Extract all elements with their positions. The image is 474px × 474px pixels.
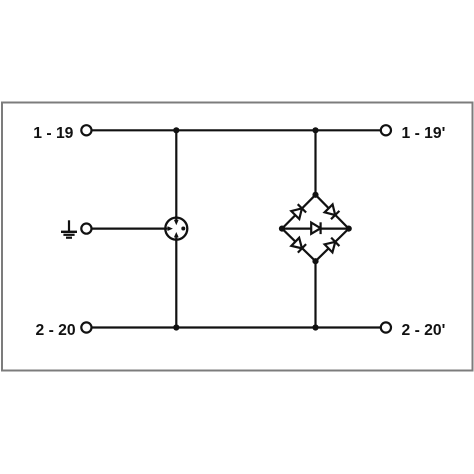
node: bridge right vertex <box>346 226 352 232</box>
diode bridge frame <box>282 195 349 261</box>
wire: bridge side bottom-right <box>316 229 349 262</box>
ground <box>61 220 77 237</box>
node: junction top bus / bridge branch <box>312 127 318 133</box>
wire: vertical branch to diode bridge top <box>314 130 316 195</box>
terminal 1-19 (open circle) <box>81 125 91 135</box>
wire: vertical branch from diode bridge bottom <box>314 261 316 328</box>
diode D4 (bottom vertex to right vertex) <box>324 238 339 253</box>
ground terminal (open circle) <box>81 224 91 234</box>
wire: bottom bus from terminal 2-20 to terminal 2-20' <box>92 326 380 328</box>
arrester gas-filled dot <box>181 227 185 231</box>
wire: vertical branch through arrester F1 <box>175 130 177 327</box>
node: bridge left vertex <box>279 226 285 232</box>
svg-text:1 - 19: 1 - 19 <box>33 125 73 142</box>
svg-text:2 - 20: 2 - 20 <box>36 322 76 339</box>
terminal 2-20' (open circle) <box>381 322 391 332</box>
svg-text:2 - 20': 2 - 20' <box>402 322 446 339</box>
diode D5 (middle, left to right) <box>311 222 320 234</box>
diode D1 (left vertex to top vertex) <box>291 204 306 219</box>
arrester side electrode (left) <box>164 228 167 230</box>
node: bridge bottom vertex <box>312 258 318 264</box>
terminal 2-20 (open circle) <box>81 322 91 332</box>
node: junction top bus / arrester branch <box>173 127 179 133</box>
gas discharge arrester F1 (circle with three arrow electrodes and gas dot) <box>164 216 187 241</box>
terminal 1-19' (open circle) <box>381 125 391 135</box>
arrester top electrode <box>175 216 177 220</box>
node: junction bottom bus / arrester branch <box>173 324 179 330</box>
diode D2 (top vertex to right vertex) <box>324 204 339 219</box>
wire: top bus from terminal 1-19 to terminal 1-19' <box>92 129 380 131</box>
svg-text:1 - 19': 1 - 19' <box>402 125 446 142</box>
arrester bottom electrode <box>175 237 177 241</box>
wire: ground terminal to arrester F1 <box>92 228 170 230</box>
diode D3 (left vertex to bottom vertex) <box>291 238 306 253</box>
wire: bridge side left-top <box>282 195 316 229</box>
node: bridge top vertex <box>312 192 318 198</box>
wire: bridge middle horizontal <box>282 228 349 230</box>
wire: bridge side left-bottom <box>282 229 316 262</box>
wire: bridge side top-right <box>316 195 349 229</box>
node: junction bottom bus / bridge branch <box>312 324 318 330</box>
